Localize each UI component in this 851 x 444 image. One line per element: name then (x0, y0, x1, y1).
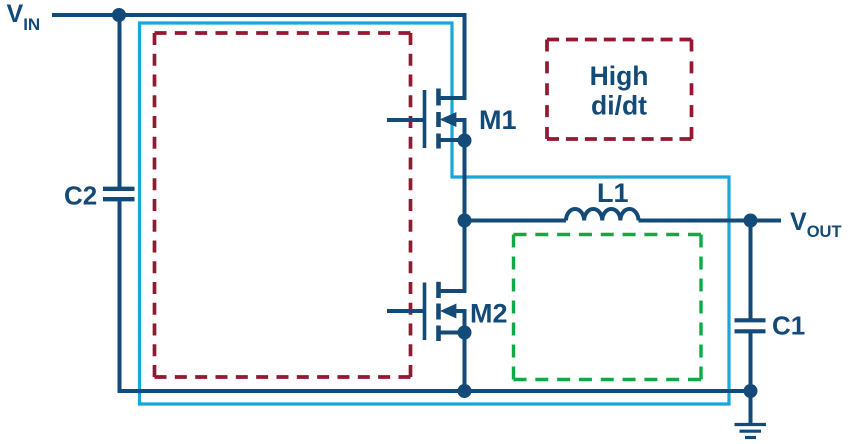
wire: L1 to VOUT (639, 219, 782, 223)
svg-text:C1: C1 (772, 311, 805, 341)
node: M2 source (458, 326, 472, 340)
high di/dt loop box (dark red dashed) (155, 33, 411, 377)
hot loop highlight (cyan) (140, 23, 730, 404)
High di/dt label box (dark red dashed) (547, 40, 692, 140)
svg-text:VIN: VIN (7, 0, 41, 34)
capacitor C2 (103, 189, 135, 199)
svg-text:C2: C2 (64, 181, 97, 211)
inductor L1 (566, 209, 638, 220)
wire: C1 top lead (749, 221, 753, 319)
wire: VIN rail to M1 drain (52, 15, 465, 98)
transistor M1 body arrow (440, 112, 457, 127)
wire: C1 bottom lead (749, 333, 753, 391)
transistor M2 gate bar (423, 283, 427, 341)
svg-text:M1: M1 (479, 105, 517, 135)
transistor M1 gate bar (423, 90, 427, 148)
svg-text:VOUT: VOUT (790, 208, 842, 241)
node: C1 / ground rail junction (744, 384, 758, 398)
svg-text:M2: M2 (470, 299, 508, 329)
transistor M2 body arrow (440, 304, 456, 319)
transistor M2 gate lead (387, 309, 423, 313)
node: switch node (458, 214, 472, 228)
capacitor C1 (735, 320, 766, 331)
wire: C2 bottom lead and ground rail (120, 201, 751, 391)
svg-text:L1: L1 (597, 178, 629, 208)
wire: switch node vertical (M1 source to M2 drain) (438, 141, 465, 292)
node: M1 source (458, 134, 472, 148)
transistor M2 channel segments (436, 282, 441, 341)
transistor M2 body wire (455, 311, 465, 333)
transistor M1 body wire (455, 120, 465, 140)
node: M2 source / ground rail junction (458, 384, 472, 398)
node: VIN / C2 junction (112, 8, 126, 22)
low di/dt loop (green dashed) (514, 235, 702, 380)
node: VOUT / C1 junction (744, 214, 758, 228)
wire: ground stem (749, 391, 753, 423)
svg-text:High: High (590, 61, 649, 91)
wire: M2 source to ground rail (463, 333, 467, 392)
transistor M1 source wire (438, 138, 465, 142)
ground symbol (735, 425, 767, 438)
transistor M2 source wire (438, 331, 465, 335)
wire: C2 top lead (118, 13, 122, 187)
transistor M1 gate lead (387, 118, 423, 122)
label: High di/dt (590, 61, 649, 121)
wire: switch node to L1 (465, 219, 567, 223)
svg-text:di/dt: di/dt (591, 91, 647, 121)
transistor M1 channel segments (436, 89, 441, 149)
